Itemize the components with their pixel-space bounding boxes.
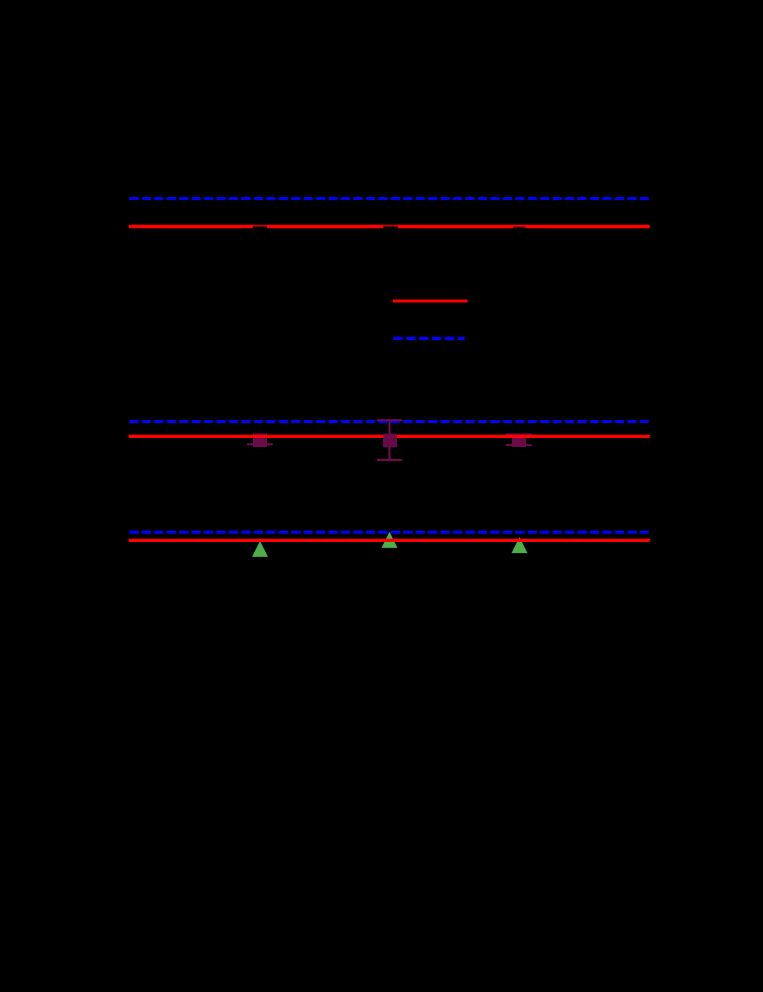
panel 2 blue dashed line (129, 420, 649, 423)
legend red solid sample (393, 299, 468, 302)
legend blue dashed sample (393, 337, 464, 340)
panel 2 red solid line (129, 435, 650, 438)
panel 1 black marker notch 1 (253, 225, 267, 241)
panel 3 red solid line (129, 539, 650, 542)
panel 1 black marker notch 2 (383, 225, 398, 241)
panel 3 green triangle marker 2 (under red line) (382, 532, 398, 548)
panel 3 green triangle marker 3 (under red line) (512, 537, 528, 553)
panel 2 purple square marker 3 (under red line) (506, 434, 532, 447)
panel 1 red solid line (129, 225, 650, 228)
panel 2 purple square marker 2 with error bar (over red line) (377, 420, 402, 460)
panel 3 blue dashed line (129, 531, 649, 534)
panel 2 purple square marker 1 (under red line) (247, 433, 273, 447)
panel 1 blue dashed line (129, 197, 649, 200)
panel 1 black marker notch 3 (513, 226, 526, 241)
panel 3 green triangle marker 1 (under red line) (252, 541, 268, 557)
